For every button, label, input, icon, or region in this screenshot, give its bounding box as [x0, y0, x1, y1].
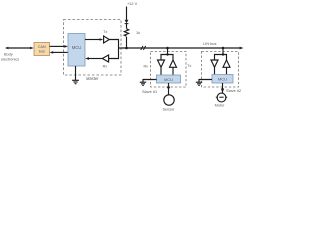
svg-text:Slave #2: Slave #2 — [226, 88, 241, 93]
wire Rx buffer to MCU — [89, 58, 103, 60]
wire MCU ground (slave2) — [199, 80, 212, 83]
svg-text:+12 V: +12 V — [127, 1, 138, 6]
bus break mark — [141, 46, 143, 50]
slave 2 dashed enclosure — [202, 52, 239, 88]
buffer Tx (slave1) — [170, 60, 177, 67]
MCU U2 (slave1) — [157, 75, 181, 83]
wires buffers to MCU (slave1) — [160, 67, 162, 75]
buffer Tx (slave2) — [223, 60, 230, 67]
buffer Rx (slave1) — [158, 60, 165, 67]
buffer Rx (slave2) — [211, 60, 218, 67]
svg-text:Body: Body — [4, 53, 13, 57]
resistor R1 1k — [124, 29, 128, 36]
svg-text:Sensor: Sensor — [162, 107, 175, 111]
svg-text:Rx: Rx — [103, 64, 108, 68]
MCU U1 (master) — [68, 34, 85, 67]
wire Tx buffer to bus node — [109, 40, 119, 59]
svg-text:LIN bus: LIN bus — [203, 41, 216, 46]
wire MCU to Tx buffer — [85, 39, 100, 41]
slave 1 dashed enclosure — [151, 52, 187, 88]
wire +12V feed — [126, 7, 128, 20]
svg-text:MCU: MCU — [218, 77, 227, 82]
junction slave 2 tap — [222, 47, 225, 50]
ground (slave1) — [140, 82, 146, 85]
arrow into Tx buffer — [100, 38, 104, 41]
svg-text:MCU: MCU — [164, 77, 173, 82]
wire body-electronics double arrow — [7, 47, 32, 49]
svg-text:Tx: Tx — [187, 64, 191, 68]
master dashed enclosure — [64, 20, 122, 76]
wire MCU to sensor — [168, 83, 170, 95]
svg-text:electronics: electronics — [1, 58, 19, 62]
wire CAN to MCU (upper) — [50, 45, 66, 47]
svg-text:Slave #1: Slave #1 — [142, 89, 157, 94]
junction resistor/bus — [125, 47, 128, 50]
wire MCU to CAN (lower) — [53, 51, 69, 53]
svg-text:MCU: MCU — [72, 45, 82, 50]
wire slave2 splitter — [215, 55, 227, 61]
wire diode to resistor — [126, 24, 128, 29]
svg-text:1k: 1k — [136, 31, 140, 35]
wire slave1 splitter — [161, 55, 173, 61]
buffer Tx (master) — [104, 36, 110, 43]
svg-text:Master: Master — [86, 76, 99, 81]
ground (slave2) — [196, 82, 202, 85]
wires buffers to MCU (slave2) — [214, 67, 216, 74]
wire slave1 tap drop — [167, 48, 169, 55]
diode D1 — [125, 20, 129, 24]
wire MCU ground (slave1) — [143, 80, 157, 83]
sensor (slave1) — [164, 95, 174, 105]
buffer Rx (master) — [102, 55, 108, 62]
wire slave2 tap drop — [222, 48, 224, 55]
svg-text:Rx: Rx — [144, 64, 149, 68]
wire MCU to motor — [222, 83, 224, 93]
wire MCU ground drop (master) — [75, 66, 77, 80]
svg-text:bus: bus — [39, 49, 45, 53]
junction slave 1 tap — [166, 47, 169, 50]
wire resistor to bus — [126, 37, 128, 48]
motor (slave2) — [217, 93, 226, 102]
svg-text:Tx: Tx — [103, 30, 107, 34]
CAN bus interface box — [34, 43, 50, 56]
wire LIN bus line — [119, 47, 241, 49]
ground (master) — [72, 80, 79, 83]
svg-text:Motor: Motor — [215, 103, 225, 107]
MCU U3 (slave2) — [212, 75, 233, 84]
